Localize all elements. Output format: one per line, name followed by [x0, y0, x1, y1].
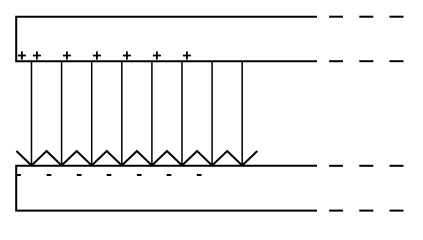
minus charge 6	[167, 174, 172, 176]
field line 4	[121, 62, 123, 166]
plus charge 1	[18, 51, 26, 59]
plus charge 6	[153, 51, 161, 59]
top plate top edge dashed continuation	[329, 16, 403, 18]
bottom plate top edge dashed continuation	[329, 165, 403, 167]
minus charge 3	[77, 174, 82, 176]
bottom plate (negative plate, open right side)	[16, 166, 317, 211]
bottom plate bottom edge dashed continuation	[329, 210, 403, 212]
top plate bottom edge dashed continuation	[329, 60, 403, 62]
plus charge 2	[33, 51, 41, 59]
arrowhead zigzag (field line arrow tips on bottom plate)	[16, 151, 257, 166]
field line 5	[151, 62, 153, 166]
field line 1	[31, 62, 33, 166]
minus charge 7	[197, 174, 202, 176]
field line 3	[91, 62, 93, 166]
plus charge 7	[183, 51, 191, 59]
plus charge 4	[93, 51, 101, 59]
plus charge 5	[123, 51, 131, 59]
field line 8	[241, 62, 243, 166]
field line 2	[61, 62, 63, 166]
top plate (positive plate, open right side)	[16, 17, 317, 62]
minus charge 2	[47, 174, 52, 176]
minus charge 4	[107, 174, 112, 176]
field line 6	[181, 62, 183, 166]
minus charge 5	[137, 174, 142, 176]
plus charge 3	[63, 51, 71, 59]
field line 7	[211, 62, 213, 166]
minus charge 1	[16, 174, 21, 176]
